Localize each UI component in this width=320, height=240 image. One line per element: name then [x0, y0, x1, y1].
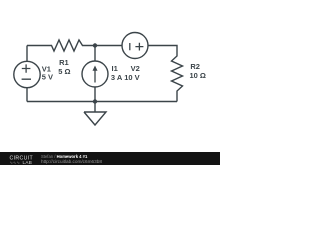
svg-text:R1: R1	[59, 58, 69, 67]
svg-text:3 A: 3 A	[111, 73, 123, 82]
svg-text:I1: I1	[112, 64, 118, 73]
svg-text:LAB: LAB	[23, 160, 33, 165]
svg-text:5 Ω: 5 Ω	[58, 67, 70, 76]
svg-text:10 V: 10 V	[124, 73, 139, 82]
svg-text:http://circuitlab.com/c6m63b8: http://circuitlab.com/c6m63b8	[41, 159, 102, 164]
svg-text:10 Ω: 10 Ω	[190, 71, 206, 80]
svg-text:V2: V2	[131, 64, 140, 73]
svg-text:R2: R2	[190, 62, 200, 71]
svg-text:5 V: 5 V	[42, 72, 53, 81]
svg-text:∿∿∿: ∿∿∿	[10, 160, 21, 165]
